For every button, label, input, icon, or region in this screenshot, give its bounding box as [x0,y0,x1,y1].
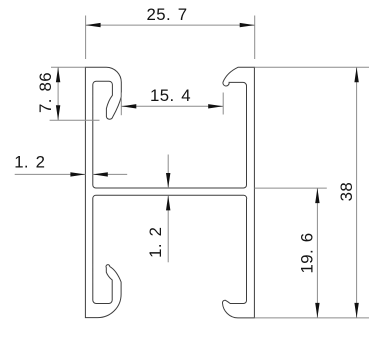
arrow 38 bottom [354,303,358,318]
svg-text:15. 4: 15. 4 [150,86,191,105]
arrowheads (black) [56,23,359,318]
dimension lines and extension lines (gray) [15,16,369,318]
arrow 1.2 wall left-pointing [93,172,108,176]
arrow 25.7 left [86,23,101,27]
arrow 1.2 web up [166,195,170,210]
dim line 1.2 web lower [167,195,169,262]
dim line 25.7 [86,24,255,26]
arrow 15.4 left [121,104,136,108]
profile outline: H-channel extrusion cross-section [85,67,254,318]
svg-text:7. 86: 7. 86 [36,72,55,113]
arrow 1.2 wall right-pointing [70,172,85,176]
ext line 7.86 bottom [50,119,100,121]
svg-text:25. 7: 25. 7 [147,5,188,24]
arrow 1.2 web down [166,173,170,188]
arrow 7.86 bottom [56,105,60,120]
ext line 15.4 left [120,93,122,116]
ext line 25.7 right [254,16,256,60]
arrow 7.86 top [56,67,60,82]
arrow 15.4 right [208,104,223,108]
arrow 19.6 top [315,188,319,203]
arrow 19.6 bottom [315,303,319,318]
dim line 19.6 [316,188,318,318]
ext line 15.4 right [222,93,224,115]
arrow 38 top [354,67,358,82]
svg-text:19. 6: 19. 6 [297,233,316,274]
arrow 25.7 right [240,23,255,27]
ext line 38 bottom [254,317,369,319]
svg-text:38: 38 [337,182,356,201]
tail line 1.2 left wall [93,173,127,175]
ext line 19.6 top [254,187,326,189]
dim line 38 [356,67,358,318]
dim line 1.2 web upper [167,155,169,189]
ext line 25.7 left [85,16,87,60]
leader line 1.2 left wall [15,173,86,175]
dim line 7.86 [57,67,59,120]
svg-text:1. 2: 1. 2 [14,153,45,172]
ext line 7.86 top [51,66,85,68]
ext line 38 top [254,66,369,68]
svg-text:1. 2: 1. 2 [146,227,165,258]
dim line 15.4 [121,105,223,107]
